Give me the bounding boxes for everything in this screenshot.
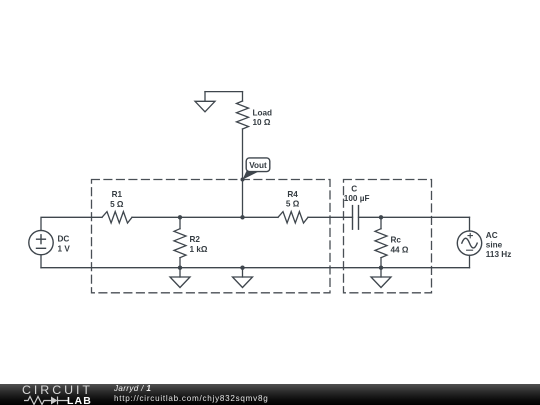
resistor Load [237, 92, 249, 129]
flag Vout [243, 158, 270, 180]
svg-text:R2: R2 [190, 235, 201, 244]
node R2 top junction [178, 215, 182, 219]
ground (below R2) [170, 268, 190, 288]
voltage source V2 AC sine [457, 231, 481, 255]
node center bottom junction [240, 266, 244, 270]
ground (center bottom) [233, 268, 253, 288]
ground (below Rc) [371, 268, 391, 288]
dashed box 2 [344, 180, 432, 293]
label Load 10 Ohm [253, 109, 273, 127]
wire Load bottom to node [242, 129, 244, 217]
label DC 1 V [58, 235, 71, 254]
label AC sine 113 Hz [486, 231, 512, 259]
capacitor C [353, 206, 359, 230]
wire bottom rail [41, 267, 470, 269]
wire ground to Load top [205, 91, 243, 93]
svg-text:sine: sine [486, 240, 503, 249]
wire C to corner [359, 216, 470, 218]
svg-text:1 kΩ: 1 kΩ [190, 245, 208, 254]
svg-text:10 Ω: 10 Ω [253, 118, 271, 127]
logo LAB [67, 397, 92, 405]
svg-text:100 µF: 100 µF [344, 194, 370, 203]
svg-text:5 Ω: 5 Ω [286, 200, 300, 209]
svg-text:Rc: Rc [391, 236, 402, 245]
wire R4 to C [308, 216, 353, 218]
svg-text:Vout: Vout [249, 161, 267, 170]
label R4 5 Ohm [286, 190, 300, 209]
svg-text:AC: AC [486, 231, 498, 240]
resistor Rc [375, 217, 387, 267]
wire AC bottom to bottom rail [469, 255, 471, 267]
node R2 bottom junction [178, 266, 182, 270]
wire R1 to R4 [132, 216, 278, 218]
voltage source V1 DC [29, 230, 53, 254]
label Rc 44 Ohm [391, 236, 409, 255]
svg-text:R4: R4 [287, 190, 298, 199]
label R1 5 Ohm [110, 190, 124, 209]
svg-text:Load: Load [253, 109, 273, 118]
svg-text:C: C [351, 184, 357, 193]
svg-text:1 V: 1 V [58, 244, 71, 253]
svg-text:5 Ω: 5 Ω [110, 200, 124, 209]
svg-text:113 Hz: 113 Hz [486, 250, 512, 259]
label R2 1 kOhm [190, 235, 208, 254]
logo resistor-diode glyph [24, 395, 70, 405]
svg-text:DC: DC [58, 235, 70, 244]
node Vout anchor [241, 178, 245, 182]
wire V1 bottom [40, 255, 42, 268]
wire corner down to AC source [469, 217, 471, 231]
node Load junction [240, 215, 244, 219]
resistor R4 [278, 212, 308, 223]
node Rc bottom junction [379, 266, 383, 270]
dashed box 1 [92, 180, 331, 293]
label C 100 uF [344, 184, 370, 202]
node Rc top junction [379, 215, 383, 219]
resistor R2 [174, 217, 186, 267]
footer text [114, 384, 268, 403]
ground (top left) [195, 92, 215, 112]
svg-text:44 Ω: 44 Ω [391, 246, 409, 255]
svg-text:R1: R1 [112, 190, 123, 199]
wire V1 top to R1 [41, 217, 102, 230]
logo CIRCUIT [22, 385, 93, 396]
footer bar [0, 384, 540, 405]
resistor R1 [102, 212, 132, 223]
